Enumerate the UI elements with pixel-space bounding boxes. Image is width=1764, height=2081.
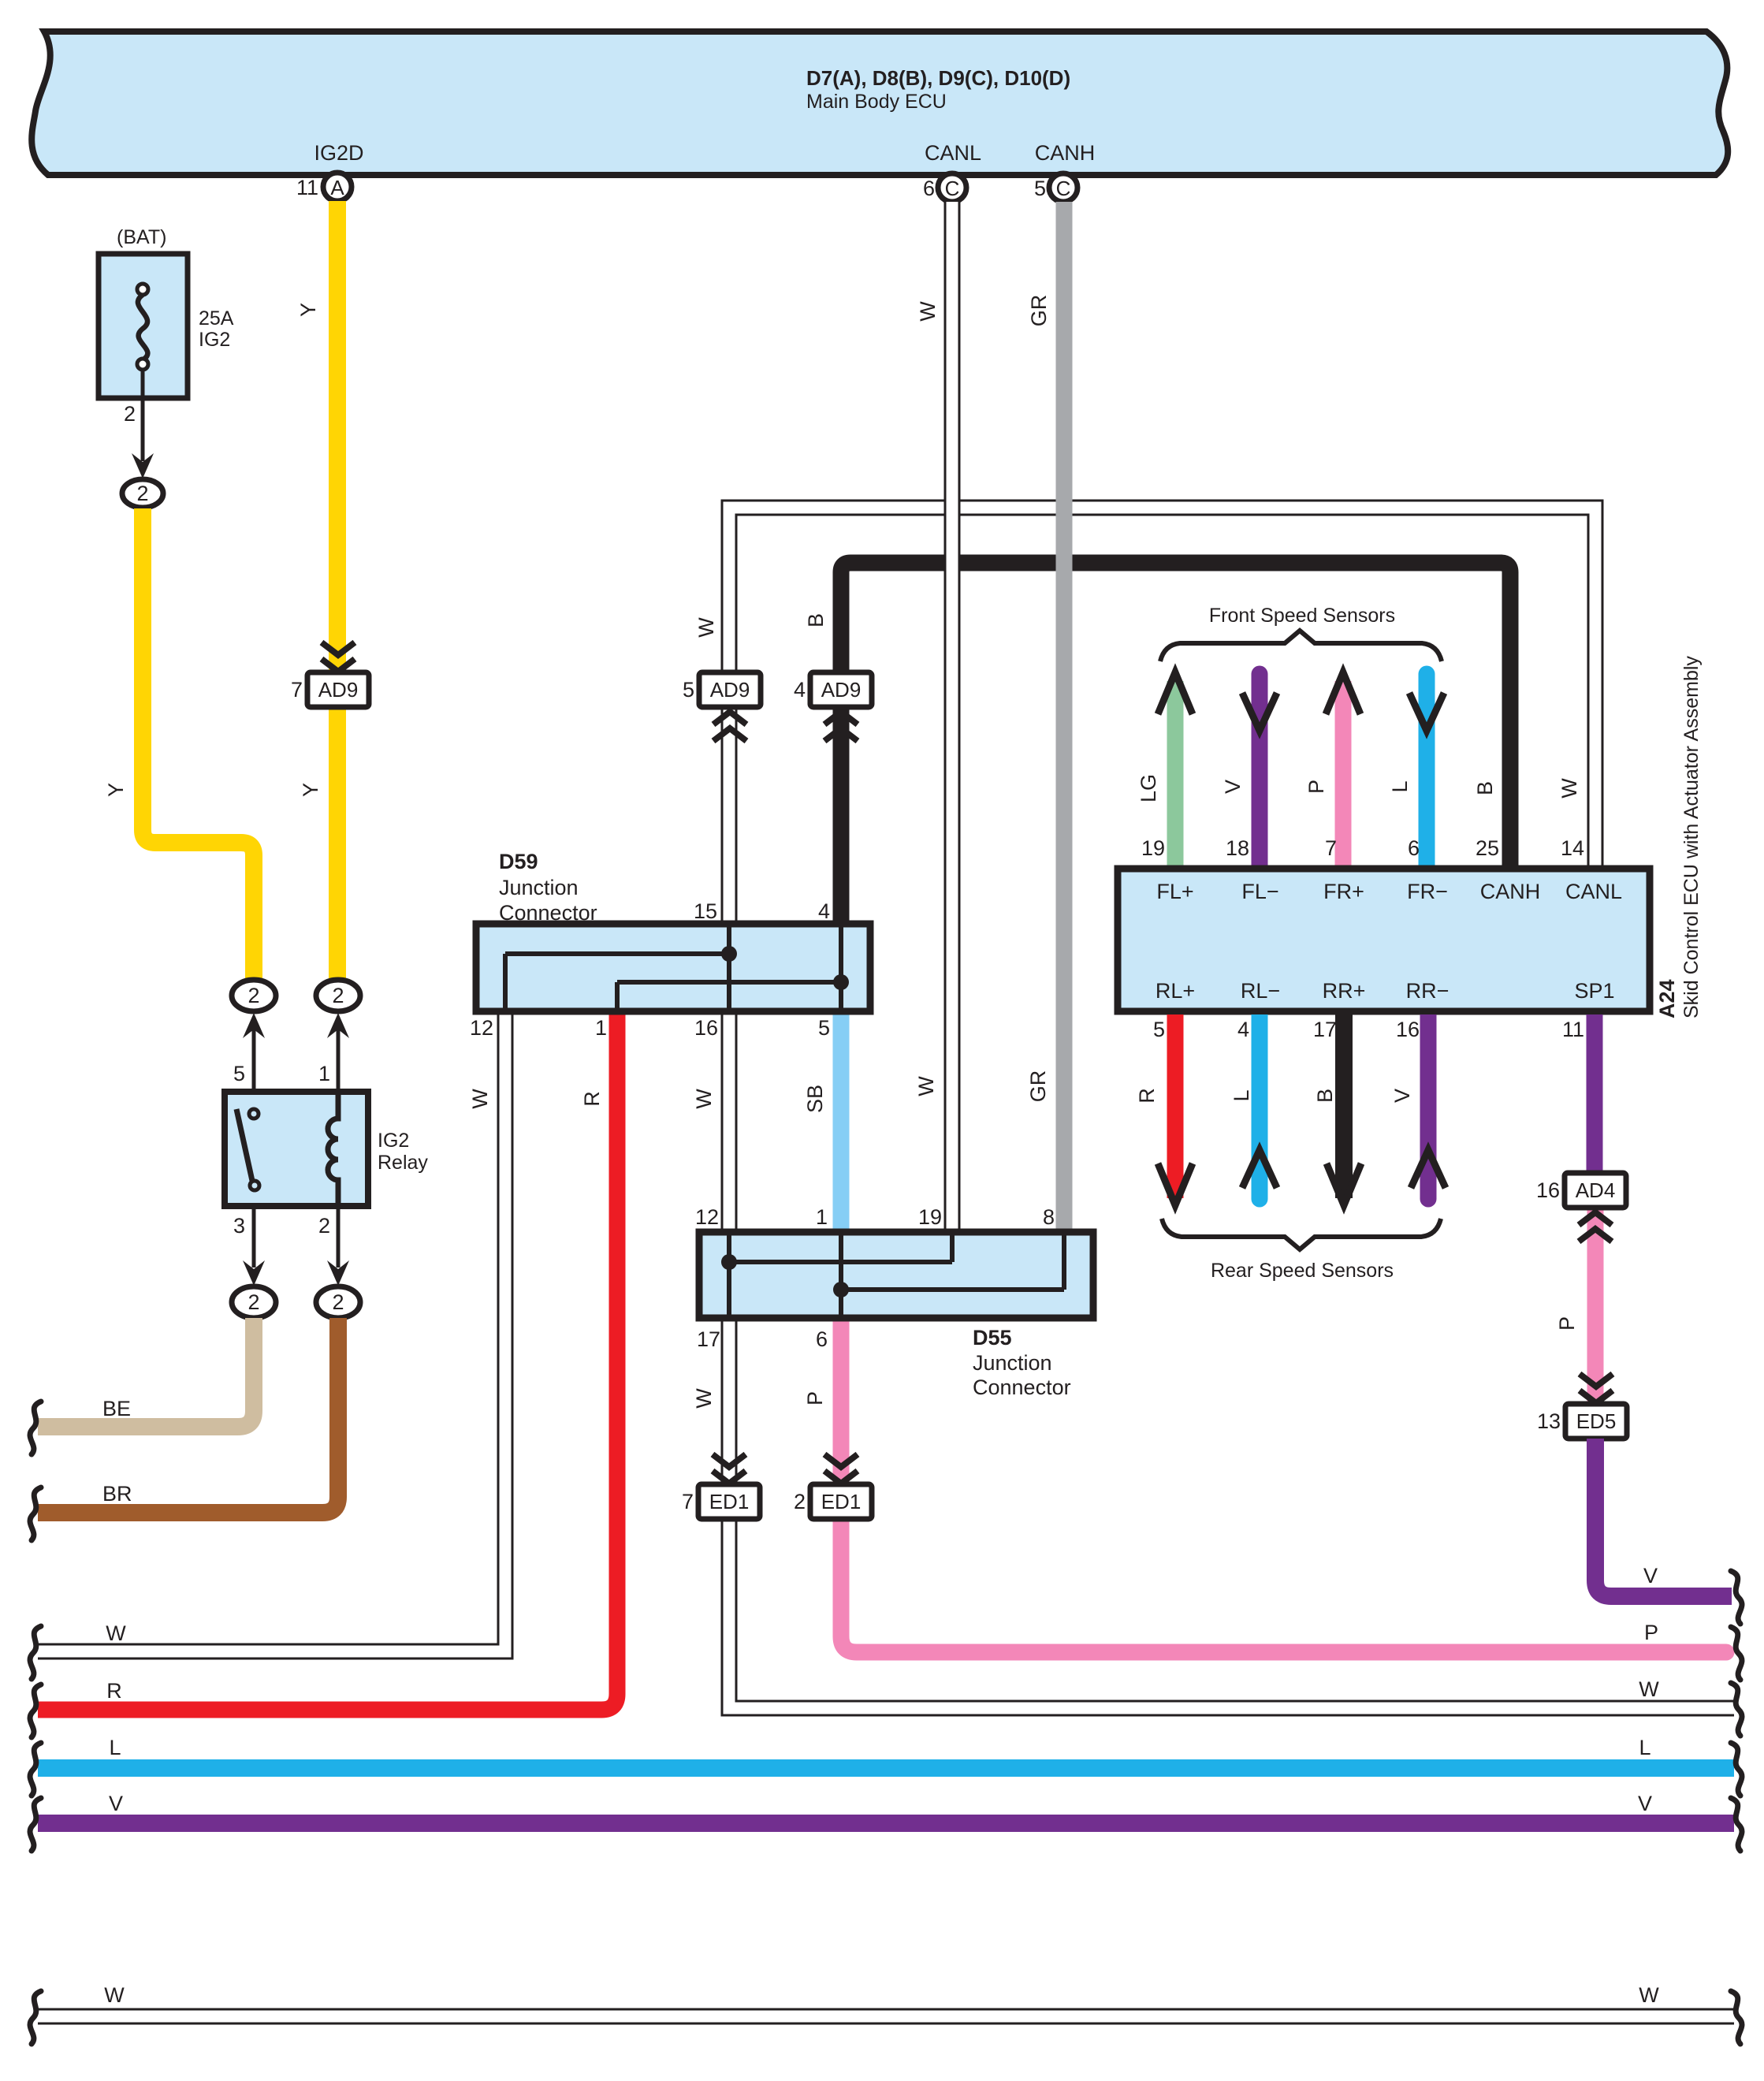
svg-text:C: C [945, 177, 960, 200]
svg-text:7: 7 [682, 1490, 694, 1513]
svg-text:FR−: FR− [1407, 880, 1448, 903]
wire W from D59 pin 16 down to D55 pin 12 [721, 1011, 738, 1232]
svg-text:V: V [1390, 1089, 1414, 1103]
svg-text:FR+: FR+ [1323, 880, 1364, 903]
svg-text:W: W [468, 1089, 492, 1109]
svg-text:V: V [1643, 1564, 1658, 1588]
torn end squiggle L left [30, 1743, 41, 1796]
svg-text:CANH: CANH [1480, 880, 1541, 903]
pin 5 connector circle C (CANH) [1034, 173, 1077, 202]
connector 7 AD9 with chevrons [291, 642, 369, 707]
svg-text:5: 5 [233, 1062, 245, 1085]
oval 2 above relay pin 1 with arrow [316, 980, 360, 1092]
wire B rear RR+ with down arrow [1313, 1014, 1361, 1205]
wire W CANL from circle C down to D55 pin 19 [914, 202, 952, 1232]
torn end squiggle W bottom left [30, 1991, 41, 2044]
wire BR from relay oval down and left to torn edge [38, 1318, 338, 1513]
svg-text:ED5: ED5 [1576, 1409, 1617, 1433]
svg-text:AD9: AD9 [318, 678, 359, 702]
svg-text:GR: GR [1027, 295, 1051, 327]
wire Y from circle A down to 7 AD9 and on to relay pin 1 oval [296, 201, 337, 981]
svg-text:L: L [109, 1736, 121, 1759]
wire W from 5 AD9 down to D59 pin 15 [692, 707, 729, 1109]
svg-text:Y: Y [299, 783, 322, 797]
connector 4 AD9 with chevrons [794, 672, 872, 741]
svg-text:19: 19 [918, 1205, 942, 1229]
svg-text:11: 11 [296, 176, 318, 199]
svg-text:W: W [916, 301, 940, 322]
wire W route from connector 5 AD9 up and across to skid ECU pin 14 [694, 508, 1595, 869]
svg-text:W: W [692, 1089, 716, 1109]
svg-text:B: B [1473, 781, 1497, 795]
svg-text:V: V [1221, 780, 1245, 794]
svg-text:Front Speed Sensors: Front Speed Sensors [1209, 605, 1395, 627]
svg-text:C: C [1056, 177, 1071, 200]
svg-text:L: L [1230, 1089, 1253, 1101]
wire P front FR+ with up arrow [1304, 672, 1360, 869]
junction connector D55 [695, 1205, 1093, 1399]
svg-text:14: 14 [1561, 836, 1584, 860]
svg-text:Y: Y [296, 303, 320, 317]
svg-text:16: 16 [694, 1016, 718, 1040]
svg-text:1: 1 [595, 1016, 607, 1040]
wire V rear RR- with up arrow [1390, 1014, 1446, 1208]
svg-text:Connector: Connector [973, 1376, 1071, 1399]
svg-text:W: W [692, 1388, 716, 1409]
svg-text:Rear Speed Sensors: Rear Speed Sensors [1211, 1260, 1394, 1282]
svg-text:5: 5 [818, 1016, 830, 1040]
svg-text:1: 1 [816, 1205, 828, 1229]
svg-text:D59: D59 [499, 850, 538, 873]
svg-text:R: R [106, 1679, 122, 1703]
torn end squiggle BR [30, 1487, 41, 1540]
wire V front FL- with down arrow [1221, 674, 1277, 869]
wire W from D59 pin 12 down and left to torn edge [38, 1011, 505, 1651]
svg-text:Junction: Junction [973, 1351, 1052, 1375]
wire W from D55 pin 17 down to 7 ED1 and on to right torn edge [692, 1318, 1734, 1708]
wire V from ED5 down and right to torn edge [1595, 1439, 1732, 1596]
wire from fuse pin 2 down to oval 2 [122, 370, 163, 508]
svg-text:FL+: FL+ [1156, 880, 1193, 903]
svg-text:6: 6 [923, 177, 935, 200]
front speed sensors label and brace [1160, 605, 1442, 661]
svg-text:12: 12 [470, 1016, 493, 1040]
torn end squiggle W bottom right [1731, 1991, 1742, 2044]
svg-text:Skid Control ECU with Actuator: Skid Control ECU with Actuator Assembly [1680, 656, 1703, 1018]
svg-text:FL−: FL− [1241, 880, 1278, 903]
svg-text:7: 7 [291, 678, 303, 702]
svg-text:6: 6 [1408, 836, 1420, 860]
svg-text:RR−: RR− [1406, 979, 1450, 1003]
wire LG front FL+ with up arrow [1137, 672, 1193, 869]
svg-text:18: 18 [1226, 836, 1249, 860]
svg-text:A: A [330, 176, 344, 199]
svg-text:11: 11 [1562, 1018, 1584, 1041]
wire from relay pin 2 down to oval 2 [316, 1206, 360, 1318]
svg-text:RL+: RL+ [1156, 979, 1195, 1003]
svg-text:ED1: ED1 [709, 1490, 750, 1513]
svg-text:Y: Y [104, 783, 128, 797]
svg-text:2: 2 [318, 1214, 330, 1238]
svg-text:W: W [104, 1983, 125, 2007]
svg-text:5: 5 [1034, 177, 1046, 200]
torn end squiggle R left [30, 1685, 41, 1737]
wire V SP1 from skid ECU pin 11 down to 16 AD4 [1587, 1014, 1603, 1174]
svg-text:6: 6 [816, 1327, 828, 1351]
connector 2 ED1 with chevrons [794, 1454, 872, 1519]
svg-text:IG2: IG2 [199, 329, 230, 351]
svg-text:R: R [580, 1091, 604, 1107]
pin 11 connector circle A [296, 173, 352, 201]
svg-text:W: W [1557, 778, 1581, 799]
torn end squiggle W right [1731, 1683, 1742, 1736]
svg-text:B: B [804, 613, 828, 627]
wire GR CANH from circle C down to D55 pin 8 [1026, 202, 1064, 1232]
svg-text:2: 2 [247, 1290, 259, 1314]
wire B from connector 4 AD9 up and across to skid ECU pin 25 [804, 563, 1510, 869]
svg-text:CANL: CANL [1565, 880, 1622, 903]
svg-text:4: 4 [1237, 1018, 1249, 1041]
svg-text:16: 16 [1396, 1018, 1420, 1041]
svg-text:P: P [1555, 1316, 1579, 1331]
svg-text:R: R [1135, 1088, 1159, 1104]
svg-text:W: W [694, 617, 718, 638]
svg-text:Relay: Relay [378, 1152, 428, 1174]
svg-text:AD4: AD4 [1576, 1178, 1616, 1202]
svg-text:AD9: AD9 [821, 678, 862, 702]
svg-text:Main Body ECU: Main Body ECU [806, 91, 947, 113]
connector 16 AD4 with chevrons [1536, 1173, 1626, 1242]
torn end squiggle V right [1731, 1571, 1742, 1624]
svg-text:15: 15 [694, 899, 717, 923]
svg-text:RL−: RL− [1241, 979, 1280, 1003]
svg-text:D7(A), D8(B), D9(C), D10(D): D7(A), D8(B), D9(C), D10(D) [806, 66, 1070, 90]
torn end squiggle V left [30, 1798, 41, 1851]
svg-text:25A: 25A [199, 307, 234, 329]
svg-text:B: B [1313, 1089, 1337, 1103]
svg-text:SB: SB [803, 1085, 827, 1113]
torn end squiggle P right [1731, 1627, 1742, 1680]
wire P from AD4 down to 13 ED5 [1555, 1208, 1595, 1404]
svg-text:1: 1 [318, 1062, 330, 1085]
torn end squiggle BE [30, 1402, 41, 1454]
svg-text:L: L [1388, 780, 1412, 792]
oval 2 above relay pin 5 with arrow [232, 980, 276, 1092]
wire B from 4 AD9 down to D59 pin 4 [833, 707, 850, 924]
relay IG2 [225, 1062, 428, 1238]
svg-text:16: 16 [1536, 1178, 1560, 1202]
wire R from D59 pin 1 down and left to torn edge [38, 1011, 617, 1710]
torn end squiggle W left [30, 1626, 41, 1679]
svg-text:19: 19 [1141, 836, 1165, 860]
torn end squiggle L right [1731, 1743, 1742, 1796]
svg-text:2: 2 [332, 984, 344, 1007]
svg-text:ED1: ED1 [821, 1490, 862, 1513]
wire SB from D59 pin 5 down to D55 pin 1 [803, 1011, 841, 1232]
svg-text:2: 2 [136, 482, 148, 505]
svg-text:CANL: CANL [925, 141, 981, 165]
svg-text:IG2D: IG2D [314, 141, 363, 165]
wire R rear RL+ with down arrow [1135, 1014, 1193, 1205]
svg-text:5: 5 [1153, 1018, 1165, 1041]
svg-text:2: 2 [247, 984, 259, 1007]
connector 7 ED1 with chevrons [682, 1454, 760, 1519]
svg-text:V: V [109, 1792, 123, 1815]
svg-text:IG2: IG2 [378, 1130, 409, 1152]
svg-text:W: W [914, 1076, 938, 1096]
rear speed sensors brace and label [1162, 1219, 1441, 1282]
svg-text:2: 2 [124, 402, 136, 426]
svg-text:W: W [1639, 1983, 1659, 2007]
fuse 25A IG2 (BAT) [99, 226, 234, 398]
svg-text:P: P [1644, 1621, 1658, 1644]
svg-text:7: 7 [1325, 836, 1337, 860]
svg-text:(BAT): (BAT) [117, 226, 166, 248]
svg-text:BR: BR [102, 1482, 132, 1506]
connector 5 AD9 with chevrons [683, 672, 761, 741]
wire P from D55 pin 6 down to 2 ED1 and on to right torn edge [803, 1318, 1735, 1661]
svg-text:P: P [803, 1391, 827, 1405]
svg-text:LG: LG [1137, 774, 1160, 802]
wire L rear RL- with up arrow [1230, 1014, 1277, 1208]
wire BE from relay oval down and left to torn edge [38, 1318, 254, 1427]
svg-text:P: P [1304, 780, 1328, 794]
wire V horizontal across page [38, 1792, 1734, 1823]
svg-text:17: 17 [1313, 1018, 1337, 1041]
junction connector D59 [470, 850, 870, 1040]
svg-text:2: 2 [332, 1290, 344, 1314]
svg-text:SP1: SP1 [1574, 979, 1614, 1003]
connector 13 ED5 with chevrons [1537, 1374, 1627, 1439]
svg-text:4: 4 [794, 678, 806, 702]
wire L horizontal across page [38, 1736, 1734, 1768]
svg-text:3: 3 [233, 1214, 245, 1238]
svg-text:2: 2 [794, 1490, 806, 1513]
svg-text:5: 5 [683, 678, 694, 702]
svg-text:D55: D55 [973, 1326, 1012, 1349]
svg-text:8: 8 [1043, 1205, 1055, 1229]
svg-text:AD9: AD9 [710, 678, 750, 702]
svg-text:RR+: RR+ [1323, 979, 1366, 1003]
svg-text:V: V [1638, 1792, 1652, 1815]
wire W horizontal bottom across page [38, 1983, 1734, 2016]
torn end squiggle V2 right [1731, 1798, 1742, 1851]
wire L front FR- with down arrow [1388, 674, 1444, 869]
svg-text:L: L [1639, 1736, 1650, 1759]
svg-text:25: 25 [1476, 836, 1499, 860]
Main Body ECU block D7(A),D8(B),D9(C),D10(D) [32, 32, 1728, 175]
svg-text:CANH: CANH [1035, 141, 1096, 165]
svg-text:W: W [106, 1621, 126, 1645]
svg-text:4: 4 [818, 899, 830, 923]
svg-text:GR: GR [1026, 1070, 1050, 1103]
wire from relay pin 3 down to oval 2 [232, 1206, 276, 1318]
pin 6 connector circle C (CANL) [923, 173, 966, 202]
svg-text:12: 12 [695, 1205, 719, 1229]
svg-text:A24: A24 [1655, 979, 1679, 1018]
svg-text:BE: BE [102, 1397, 131, 1420]
svg-text:Junction: Junction [499, 876, 579, 899]
svg-text:13: 13 [1537, 1409, 1561, 1433]
skid control ECU box A24 [1118, 656, 1703, 1041]
svg-text:W: W [1639, 1677, 1659, 1701]
wire Y from fuse oval down and over to relay pin 5 oval [104, 508, 254, 981]
svg-text:17: 17 [697, 1327, 720, 1351]
